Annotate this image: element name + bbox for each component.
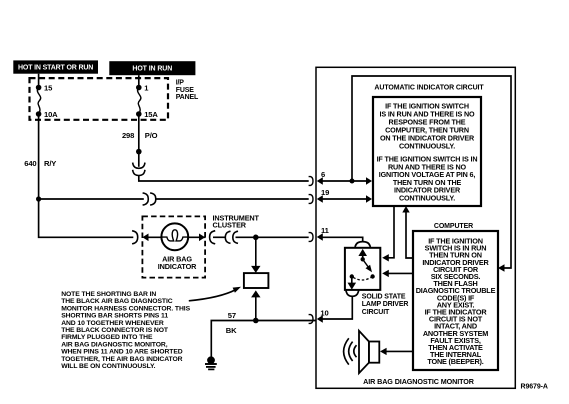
speaker sound waves [354, 345, 357, 357]
connector above lamp driver [355, 242, 371, 249]
junction node pin 6 [350, 179, 355, 184]
wire 298 to monitor pin 6 [139, 176, 309, 181]
power feed bar HOT IN START OR RUN [13, 60, 98, 73]
svg-text:640: 640 [24, 159, 36, 168]
wire from HOT IN RUN bar into fuse panel [138, 75, 140, 87]
speaker [359, 331, 379, 373]
fuse F1 bottom node [36, 111, 42, 117]
wire 640 R/Y vertical [38, 114, 40, 199]
pin 11 arrow [317, 233, 323, 240]
wire cluster to in-line connector [213, 236, 226, 238]
pin 6 arrow [317, 177, 323, 184]
in-line connector on pin 11 wire right half [233, 231, 238, 243]
svg-text:HOT IN RUN: HOT IN RUN [132, 66, 172, 73]
svg-text:TOGETHER, THE AIR BAG INDICATO: TOGETHER, THE AIR BAG INDICATOR [61, 356, 182, 363]
arrow into shorting bar top [251, 266, 260, 273]
svg-text:19: 19 [321, 188, 329, 197]
wire computer to lamp driver [388, 272, 414, 274]
pin 10 arrow [317, 315, 323, 322]
lamp driver switch right contact [370, 274, 374, 278]
pin 6 connector at monitor edge [309, 177, 313, 186]
solid state lamp driver box [345, 248, 380, 290]
wire to indicator lamp [146, 236, 205, 238]
svg-text:AIR BAG DIAGNOSTIC MONITOR,: AIR BAG DIAGNOSTIC MONITOR, [61, 341, 168, 348]
svg-text:PANEL: PANEL [176, 94, 199, 101]
in-line connector on pin 19 wire right half [150, 193, 156, 205]
svg-text:TONE (BEEPER).: TONE (BEEPER). [427, 357, 483, 366]
svg-text:THE BLACK AIR BAG DIAGNOSTIC: THE BLACK AIR BAG DIAGNOSTIC [61, 298, 173, 305]
connector at cluster left edge [132, 231, 138, 244]
wire indicator circuit to lamp driver [388, 206, 395, 258]
air bag diagnostic monitor box [316, 67, 515, 388]
svg-text:COMPUTER: COMPUTER [434, 223, 473, 230]
wire 640 down to instrument cluster [39, 199, 134, 237]
note pointer arrow [189, 290, 236, 301]
wire pin 19 to monitor [156, 198, 309, 200]
wire 640 branch to monitor pin 19 [39, 198, 144, 200]
svg-text:AND 10 TOGETHER WHENEVER: AND 10 TOGETHER WHENEVER [61, 320, 164, 327]
svg-text:MONITOR HARNESS CONNECTOR. THI: MONITOR HARNESS CONNECTOR. THIS [61, 305, 190, 312]
lamp filament [161, 230, 188, 241]
connector below lamp driver [346, 291, 359, 297]
in-line connector on 298 wire upper half [133, 163, 145, 169]
in-line connector on pin 19 wire left half [143, 193, 149, 205]
pin 6 wire to indicator circuit [319, 180, 367, 182]
note text block [61, 291, 190, 370]
computer text [416, 237, 496, 367]
svg-text:AIR BAG DIAGNOSTIC MONITOR: AIR BAG DIAGNOSTIC MONITOR [363, 377, 475, 386]
automatic indicator circuit text [377, 102, 478, 203]
wire to monitor pin 11 [236, 236, 309, 238]
svg-text:NOTE THE SHORTING BAR IN: NOTE THE SHORTING BAR IN [61, 291, 156, 298]
pin 19 connector at monitor edge [309, 195, 313, 204]
connector at cluster right edge [210, 231, 216, 244]
svg-text:FUSE: FUSE [176, 87, 195, 94]
automatic indicator circuit text box [373, 97, 481, 206]
fuse F1 pin 15 node [36, 85, 42, 91]
lamp driver up arrow [358, 249, 367, 256]
wire computer to indicator circuit with up arrow [406, 211, 413, 258]
lamp driver switch top contact [361, 257, 365, 261]
arrow into computer right edge [498, 264, 505, 271]
arrow to cluster right edge [199, 234, 205, 242]
in-line connector on pin 11 wire left half [225, 231, 230, 243]
svg-text:LAMP DRIVER: LAMP DRIVER [362, 301, 409, 308]
junction node on 298 wire [136, 149, 142, 155]
svg-text:HOT IN START OR RUN: HOT IN START OR RUN [18, 65, 93, 72]
wire junction to shorting bar [255, 237, 257, 267]
wire computer to speaker [385, 350, 413, 352]
fuse F2 bottom node [136, 111, 142, 117]
svg-text:THE BLACK CONNECTOR IS NOT: THE BLACK CONNECTOR IS NOT [61, 327, 169, 334]
shorting bar [244, 273, 269, 288]
fuse F2 pin 1 node [136, 85, 142, 91]
pin 10 wire to lamp driver [319, 296, 352, 319]
wire 57 BK [211, 321, 316, 358]
svg-text:CONTINUOUSLY.: CONTINUOUSLY. [399, 142, 455, 151]
pin 11 connector at monitor edge [309, 233, 313, 242]
instrument cluster dashed box [142, 216, 205, 277]
pin 19 wire to indicator circuit [319, 198, 367, 200]
pin 10 connector at monitor edge [309, 315, 313, 324]
arrow up into shorting bar bottom [251, 290, 260, 297]
svg-text:BK: BK [226, 326, 237, 335]
svg-text:SHORTING BAR SHORTS PINS 11: SHORTING BAR SHORTS PINS 11 [61, 313, 168, 320]
svg-text:R9679-A: R9679-A [521, 384, 548, 391]
svg-text:INDICATOR: INDICATOR [158, 262, 197, 271]
svg-text:298: 298 [122, 131, 134, 140]
arrow into indicator text box pin 6 [366, 177, 372, 184]
svg-text:15: 15 [44, 84, 53, 93]
lamp driver switch blade [363, 259, 371, 270]
svg-text:P/O: P/O [145, 131, 158, 140]
svg-text:CLUSTER: CLUSTER [213, 221, 247, 230]
ground G100 [205, 356, 217, 369]
svg-text:I/P: I/P [176, 80, 185, 87]
svg-text:57: 57 [228, 311, 236, 320]
wire 298 P/O vertical [138, 114, 140, 167]
lamp driver switch left contact [350, 274, 354, 278]
junction node on 640 wire [36, 196, 41, 201]
computer box [413, 231, 498, 370]
pin 19 arrow [317, 195, 323, 202]
air bag indicator lamp [161, 223, 188, 250]
lamp driver down arrow [351, 277, 353, 284]
svg-text:10A: 10A [44, 110, 58, 119]
lamp driver switch travel arc dashed [352, 277, 373, 281]
in-line connector on 298 wire lower half [133, 170, 145, 176]
fuse F2 15A squiggle [138, 88, 141, 115]
power feed bar HOT IN RUN [109, 61, 195, 75]
I/P fuse panel label [176, 80, 199, 101]
pin 11 wire to lamp driver [319, 237, 363, 242]
ignition feed wire to computer [352, 76, 511, 268]
svg-text:11: 11 [321, 226, 330, 235]
svg-text:6: 6 [321, 170, 325, 179]
junction node pin 11 wire [253, 235, 259, 241]
svg-text:FIRMLY PLUGGED INTO THE: FIRMLY PLUGGED INTO THE [61, 334, 153, 341]
junction node on 57 wire [253, 318, 259, 324]
svg-text:SOLID STATE: SOLID STATE [362, 294, 406, 301]
wire from HOT IN START OR RUN bar into fuse panel [38, 74, 40, 88]
I/P fuse panel dashed box [30, 78, 169, 120]
svg-text:10: 10 [320, 308, 328, 317]
svg-text:15A: 15A [144, 110, 158, 119]
svg-text:CONTINUOUSLY.: CONTINUOUSLY. [399, 194, 455, 203]
svg-text:WHEN PINS 11 AND 10 ARE SHORTE: WHEN PINS 11 AND 10 ARE SHORTED [61, 349, 183, 356]
svg-text:WILL BE ON CONTINUOUSLY.: WILL BE ON CONTINUOUSLY. [61, 363, 155, 370]
svg-text:CIRCUIT: CIRCUIT [362, 309, 390, 316]
svg-text:R/Y: R/Y [44, 159, 56, 168]
arrow into cluster left edge [142, 234, 148, 242]
svg-text:AUTOMATIC INDICATOR CIRCUIT: AUTOMATIC INDICATOR CIRCUIT [374, 84, 484, 91]
arrow into indicator text box pin 19 [366, 195, 372, 202]
wire shorting bar to 57 wire [255, 297, 257, 321]
fuse F1 10A squiggle [37, 88, 40, 115]
